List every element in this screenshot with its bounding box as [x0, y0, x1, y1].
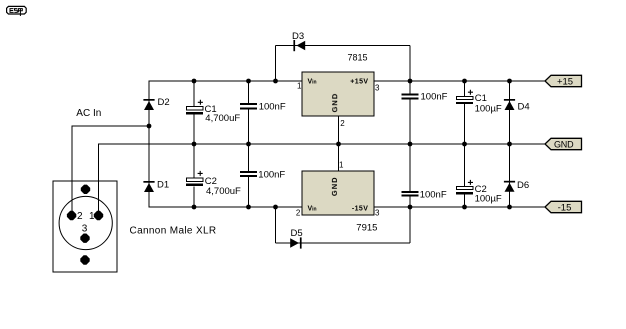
wire -15 rail left	[149, 206, 303, 208]
svg-text:1: 1	[89, 211, 95, 222]
wire D5 feedback bottom	[276, 242, 411, 244]
wire XLR pin2 vertical	[71, 126, 73, 212]
junction 100nF right on +15 rail	[408, 79, 413, 84]
junction C1 100uF on +15 rail	[462, 79, 467, 84]
junction D6 on -15 rail	[507, 205, 512, 210]
XLR pin 1	[94, 211, 103, 220]
wire 100nF bottom-left lower lead	[248, 177, 250, 207]
svg-text:100µF: 100µF	[475, 104, 502, 115]
capacitor 100nF bottom-right	[402, 191, 419, 197]
wire D3 feedback top	[276, 45, 411, 47]
junction D3 cathode on +V raw rail	[273, 79, 278, 84]
svg-text:C1: C1	[475, 93, 487, 104]
capacitor 100nF bottom-left	[240, 171, 257, 177]
ESP logo	[7, 6, 27, 16]
regulator U1 7815	[302, 72, 374, 116]
node +15 terminal	[545, 75, 582, 87]
svg-text:AC In: AC In	[76, 108, 101, 119]
node GND terminal	[545, 138, 582, 149]
XLR bottom mounting pin	[80, 255, 89, 264]
svg-text:D3: D3	[292, 31, 304, 42]
wire right column middle vertical	[409, 100, 411, 192]
svg-text:100nF: 100nF	[259, 102, 286, 113]
wire +15 rail left	[149, 80, 303, 82]
capacitor C1 100uF	[456, 97, 473, 105]
svg-text:D2: D2	[158, 97, 170, 108]
junction AC input / D1 D2	[147, 124, 152, 129]
svg-text:GND: GND	[554, 140, 574, 150]
capacitor C2 4,700uF	[186, 178, 203, 186]
junction 100nF right on -15 rail	[408, 205, 413, 210]
junction 100nF top-left on +V raw rail	[246, 79, 251, 84]
svg-text:D1: D1	[157, 180, 169, 191]
svg-text:-15V: -15V	[352, 206, 368, 213]
wire C1 4700 top lead	[193, 81, 195, 107]
diode D2	[143, 99, 154, 110]
wire regulator GND pins vertical	[338, 116, 340, 171]
XLR connector body	[53, 181, 117, 272]
junction regulator GND pins on GND rail	[336, 142, 341, 147]
diode D3	[293, 40, 305, 51]
junction D4 on +15 rail	[507, 79, 512, 84]
junction C1 4700 top on +V raw rail	[192, 79, 197, 84]
svg-text:Vin: Vin	[308, 206, 317, 213]
svg-text:7915: 7915	[356, 223, 377, 234]
wire AC upper horizontal	[72, 125, 150, 127]
svg-text:GND: GND	[330, 93, 339, 113]
svg-text:100µF: 100µF	[475, 194, 502, 205]
wire C1 100uF bottom / C2 100uF top lead	[464, 104, 466, 187]
svg-text:7815: 7815	[348, 53, 368, 63]
junction C1/C2 100uF on GND rail	[462, 142, 467, 147]
svg-text:100nF: 100nF	[258, 170, 285, 181]
wire C1 bottom / C2 top lead	[193, 115, 195, 179]
diode D5	[290, 237, 301, 248]
wire +15 rail right	[374, 80, 545, 82]
regulator U2 7915	[302, 171, 374, 215]
capacitor 100nF top-left	[240, 103, 257, 110]
capacitor C2 100uF	[456, 186, 473, 194]
svg-text:100nF: 100nF	[420, 189, 447, 200]
svg-text:3: 3	[375, 83, 380, 92]
wire XLR pin1 vertical	[98, 144, 100, 212]
XLR top mounting pin	[81, 185, 90, 194]
svg-text:D5: D5	[291, 228, 303, 239]
junction D4/D6 on GND rail	[507, 142, 512, 147]
svg-text:D6: D6	[517, 180, 529, 191]
wire -15 rail right	[374, 206, 545, 208]
diode D6	[504, 181, 515, 192]
svg-text:4,700uF: 4,700uF	[206, 186, 241, 197]
wire 100nF top-left upper lead	[248, 81, 250, 103]
wire C2 100uF bottom lead	[464, 195, 466, 208]
svg-text:4,700uF: 4,700uF	[205, 113, 240, 124]
diode D1	[143, 181, 154, 192]
svg-text:3: 3	[375, 209, 380, 218]
svg-text:1: 1	[339, 161, 344, 170]
svg-text:GND: GND	[330, 176, 339, 196]
svg-text:2: 2	[77, 211, 83, 222]
svg-text:100nF: 100nF	[421, 92, 448, 103]
wire GND rail	[98, 143, 545, 145]
capacitor C1 4,700uF	[186, 107, 203, 115]
junction C2 100uF on -15 rail	[462, 205, 467, 210]
wire C2 4700 bottom lead	[193, 187, 195, 208]
wire D4 D6 vertical	[509, 81, 511, 207]
wire D5 left vertical	[275, 207, 277, 243]
svg-text:D4: D4	[518, 102, 530, 113]
svg-text:3: 3	[82, 224, 88, 235]
XLR pin 2	[67, 211, 76, 220]
junction C2 4700 bottom on -V raw rail	[192, 205, 197, 210]
junction 100nF bottom-left on -V raw rail	[246, 205, 251, 210]
wire diode chain vertical D2 D1	[148, 81, 150, 207]
svg-text:Cannon Male XLR: Cannon Male XLR	[130, 226, 217, 237]
diode D4	[504, 99, 515, 110]
wire D3 left vertical	[275, 46, 277, 82]
wire 100nF left middle lead	[248, 110, 250, 172]
svg-text:Vin: Vin	[308, 79, 317, 86]
junction 100nF right pair on GND rail	[408, 142, 413, 147]
junction 100nF left pair on GND rail	[246, 142, 251, 147]
wire right column upper vertical	[409, 46, 411, 94]
svg-text:2: 2	[296, 209, 301, 218]
svg-text:+15V: +15V	[350, 79, 368, 86]
XLR pin 3	[80, 234, 89, 243]
node -15 terminal	[545, 201, 582, 213]
junction C1/C2 4700 on GND rail	[192, 142, 197, 147]
junction D5 anode on -V raw rail	[273, 205, 278, 210]
svg-text:2: 2	[340, 119, 345, 128]
capacitor 100nF top-right	[402, 94, 419, 100]
wire right column lower vertical	[409, 197, 411, 244]
svg-text:+15: +15	[557, 77, 573, 88]
wire C1 100uF top lead	[464, 81, 466, 97]
svg-text:1: 1	[297, 82, 302, 91]
svg-text:-15: -15	[558, 202, 572, 213]
